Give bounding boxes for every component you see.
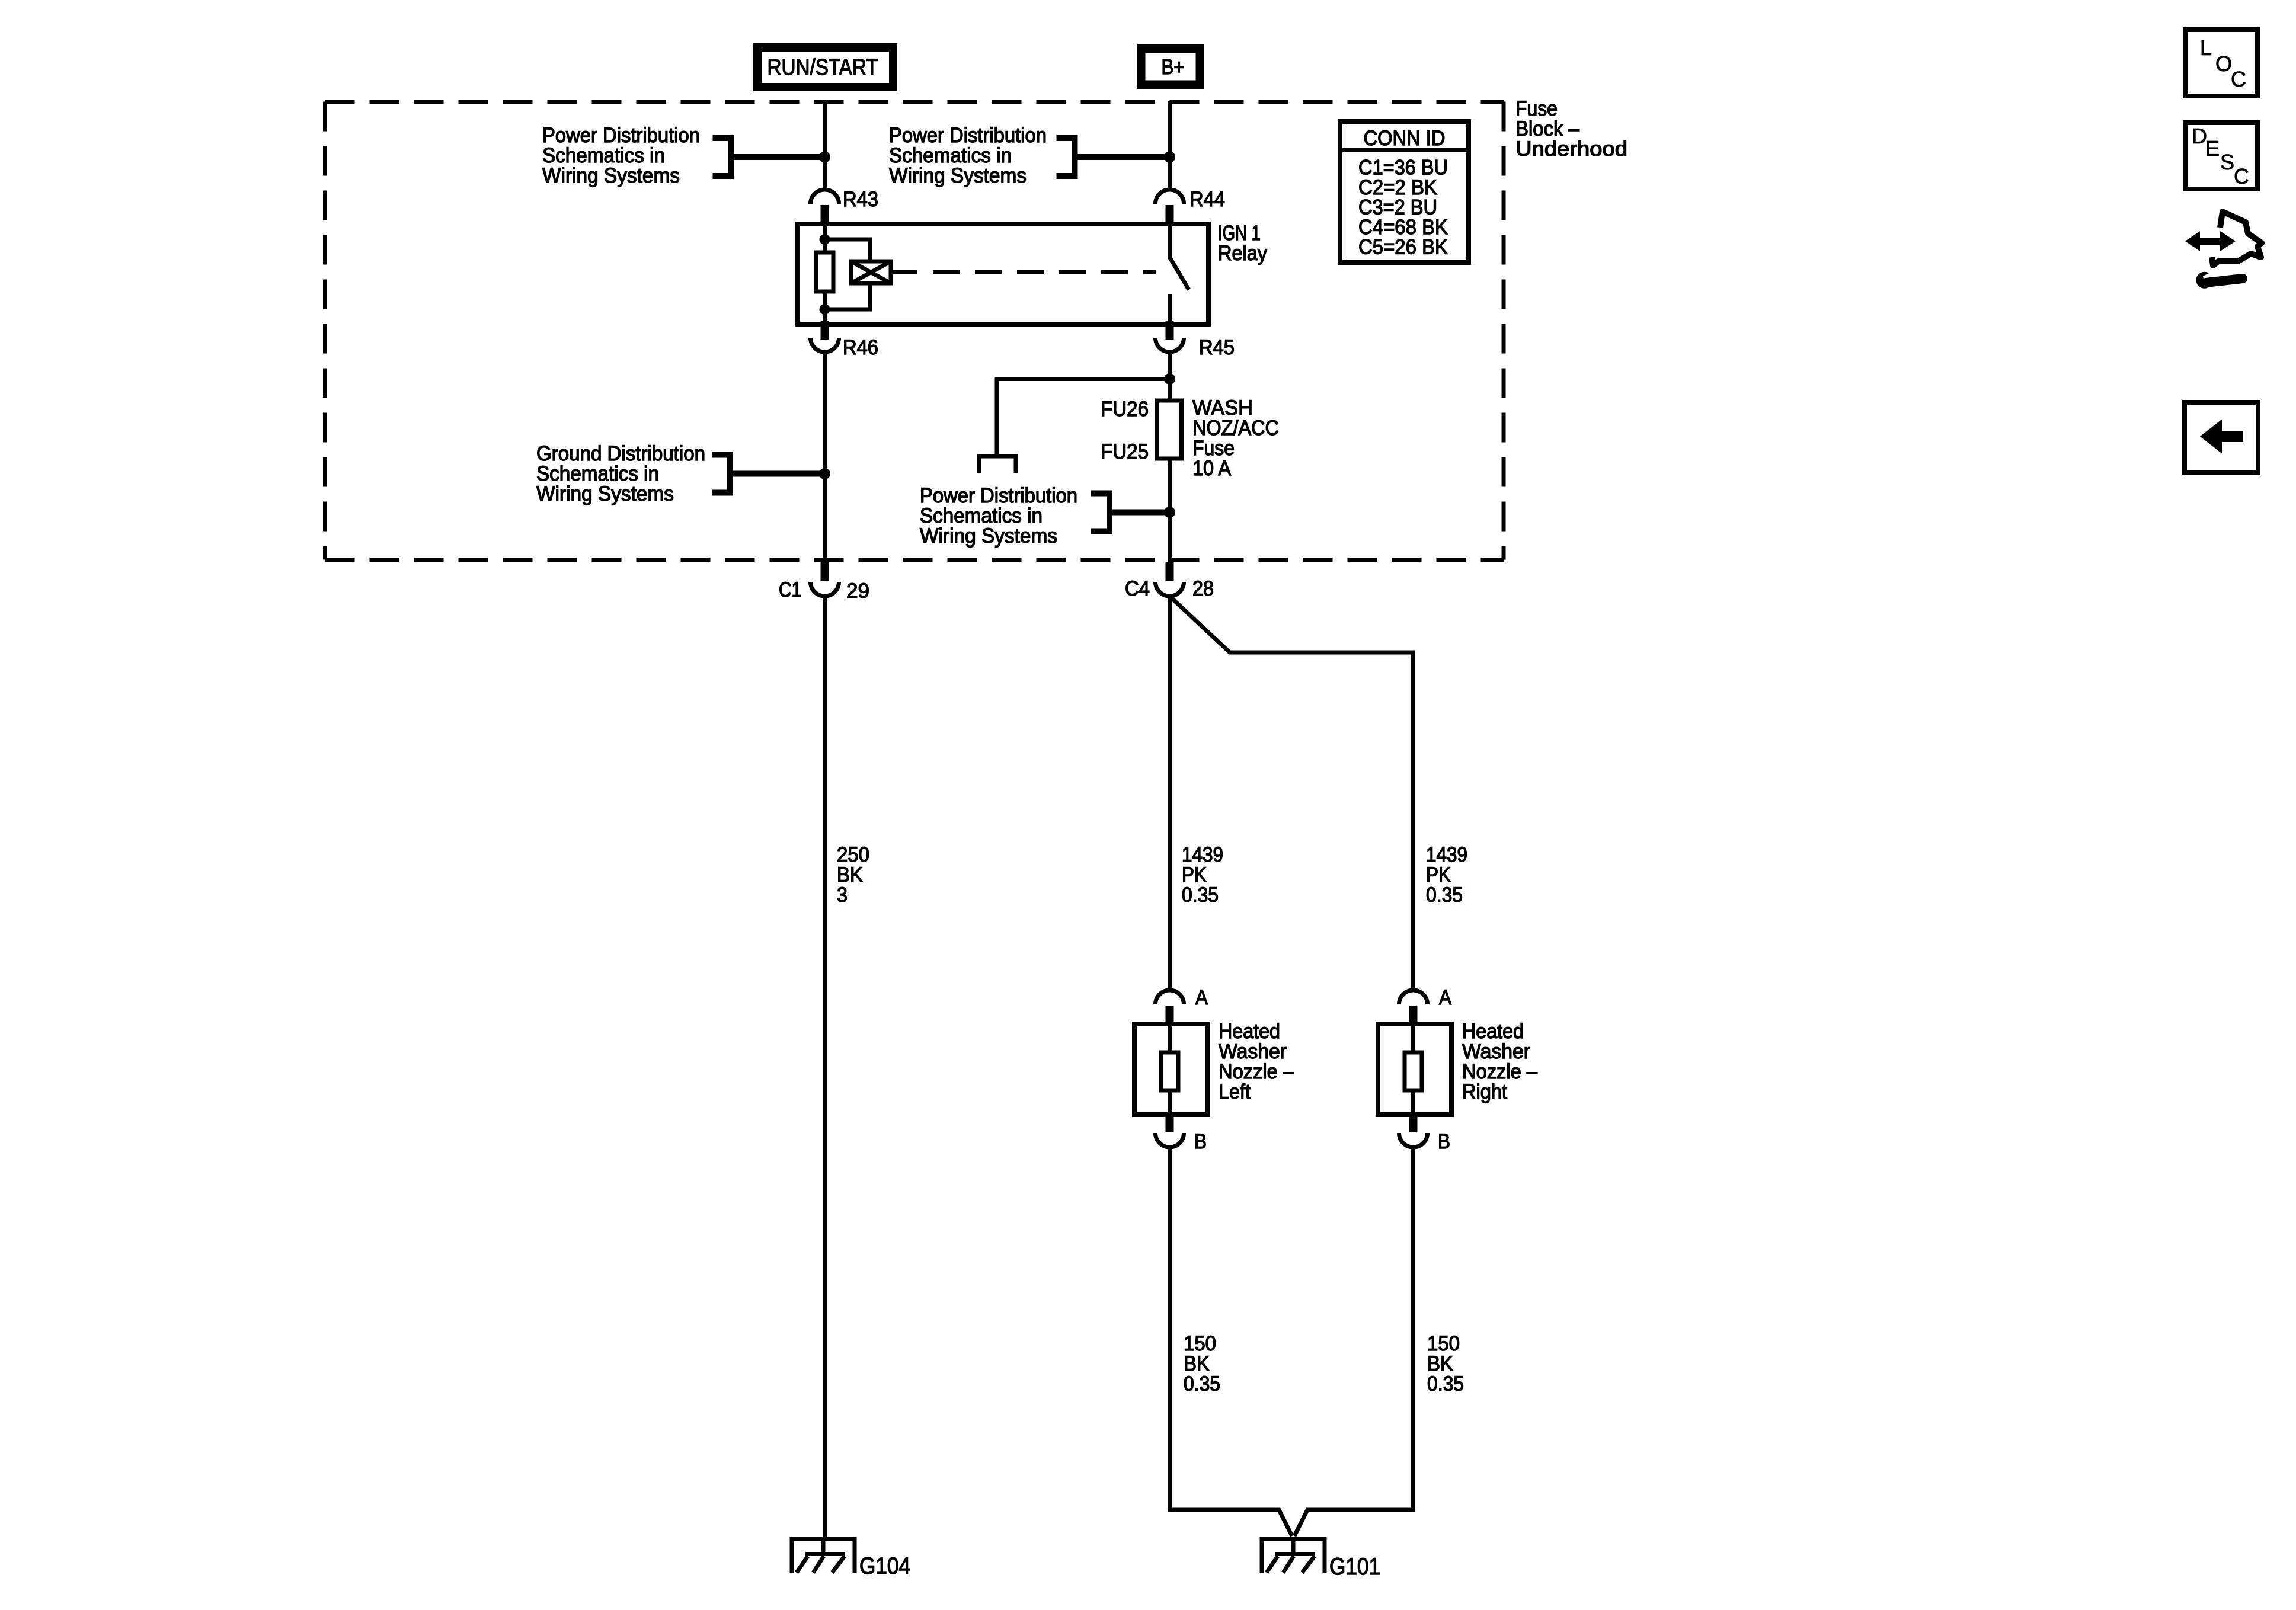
svg-text:L: L: [2200, 36, 2212, 60]
svg-text:Wiring Systems: Wiring Systems: [920, 524, 1057, 548]
svg-text:Wiring Systems: Wiring Systems: [536, 482, 674, 505]
svg-text:C5=26 BK: C5=26 BK: [1358, 236, 1448, 259]
svg-text:C1: C1: [779, 578, 801, 601]
svg-text:C4: C4: [1125, 577, 1150, 600]
svg-text:A: A: [1195, 986, 1208, 1009]
svg-text:C: C: [2234, 164, 2249, 188]
svg-text:10 A: 10 A: [1192, 457, 1232, 480]
svg-text:B: B: [1438, 1130, 1450, 1153]
svg-text:R43: R43: [843, 188, 878, 211]
svg-text:CONN ID: CONN ID: [1364, 127, 1446, 150]
svg-text:S: S: [2220, 150, 2234, 174]
svg-text:Wiring Systems: Wiring Systems: [889, 164, 1027, 187]
svg-text:29: 29: [846, 580, 869, 603]
svg-text:Relay: Relay: [1218, 242, 1267, 265]
svg-text:A: A: [1439, 986, 1452, 1009]
svg-text:0.35: 0.35: [1426, 884, 1463, 907]
svg-text:B+: B+: [1162, 55, 1185, 79]
svg-text:RUN/START: RUN/START: [768, 55, 878, 80]
svg-text:FU26: FU26: [1101, 398, 1149, 421]
svg-text:FU25: FU25: [1101, 440, 1149, 463]
svg-text:0.35: 0.35: [1427, 1372, 1464, 1395]
svg-text:E: E: [2205, 136, 2220, 161]
svg-text:Wiring Systems: Wiring Systems: [542, 164, 680, 187]
svg-text:0.35: 0.35: [1182, 884, 1219, 907]
svg-text:G101: G101: [1329, 1554, 1380, 1580]
svg-text:G104: G104: [859, 1553, 910, 1579]
svg-text:B: B: [1194, 1130, 1207, 1153]
svg-text:R46: R46: [843, 336, 878, 359]
svg-text:Right: Right: [1462, 1080, 1507, 1103]
svg-text:Underhood: Underhood: [1515, 137, 1627, 161]
svg-text:Left: Left: [1219, 1080, 1251, 1103]
svg-text:R45: R45: [1199, 336, 1235, 359]
svg-text:C: C: [2231, 67, 2246, 91]
svg-text:O: O: [2215, 52, 2232, 76]
svg-text:28: 28: [1192, 577, 1214, 600]
svg-text:0.35: 0.35: [1184, 1372, 1220, 1395]
svg-text:3: 3: [837, 884, 848, 907]
svg-text:R44: R44: [1189, 188, 1225, 211]
